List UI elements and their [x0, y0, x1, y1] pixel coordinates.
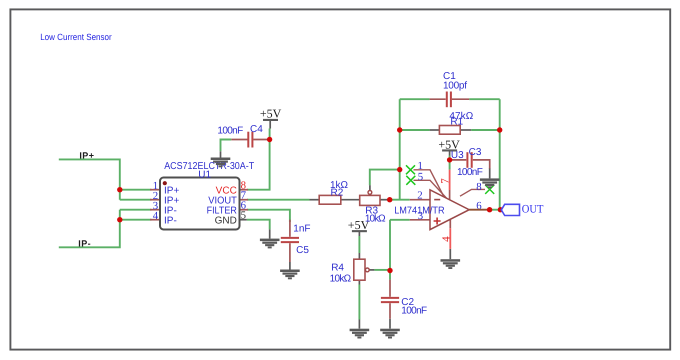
- svg-text:100nF: 100nF: [457, 167, 483, 178]
- svg-text:1nF: 1nF: [293, 224, 310, 235]
- svg-text:U1: U1: [198, 170, 211, 181]
- svg-text:100nF: 100nF: [217, 126, 243, 137]
- svg-text:C5: C5: [296, 245, 309, 256]
- svg-text:5: 5: [241, 209, 246, 221]
- svg-text:U3: U3: [451, 150, 464, 161]
- svg-text:4: 4: [153, 210, 159, 222]
- svg-text:7: 7: [440, 178, 452, 184]
- svg-text:R4: R4: [331, 262, 344, 273]
- svg-text:100nF: 100nF: [401, 306, 427, 317]
- svg-text:IP-: IP-: [164, 216, 177, 227]
- svg-text:GND: GND: [215, 216, 237, 227]
- svg-text:C4: C4: [250, 124, 263, 135]
- svg-text:IP+: IP+: [79, 150, 94, 160]
- svg-text:C3: C3: [469, 147, 482, 158]
- svg-text:4: 4: [441, 236, 453, 242]
- svg-text:3: 3: [418, 210, 423, 222]
- svg-text:100pf: 100pf: [443, 81, 467, 92]
- svg-text:5: 5: [418, 171, 423, 183]
- svg-text:Low Current Sensor: Low Current Sensor: [40, 32, 112, 42]
- svg-text:8: 8: [476, 181, 481, 193]
- svg-text:10kΩ: 10kΩ: [365, 213, 386, 224]
- svg-text:2: 2: [417, 189, 422, 201]
- svg-text:R1: R1: [450, 116, 463, 127]
- svg-text:10kΩ: 10kΩ: [330, 273, 352, 284]
- svg-text:IP-: IP-: [78, 239, 91, 249]
- svg-text:OUT: OUT: [522, 204, 544, 216]
- svg-text:R2: R2: [331, 187, 344, 198]
- svg-text:+5V: +5V: [260, 107, 282, 121]
